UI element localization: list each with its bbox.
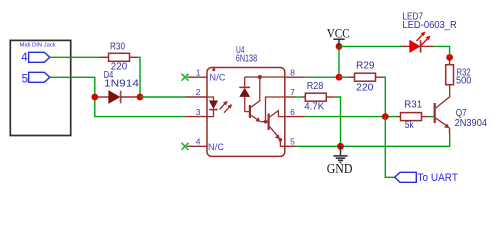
node R32/LED junction dot xyxy=(446,54,453,61)
pin 5 stub and label xyxy=(285,137,296,147)
svg-text:5: 5 xyxy=(290,137,295,147)
wire pin 8 to VCC node xyxy=(305,76,339,78)
pin 7 stub and label xyxy=(285,87,296,97)
ground GND symbol xyxy=(327,146,353,176)
svg-text:4: 4 xyxy=(21,52,28,64)
svg-text:R31: R31 xyxy=(404,100,422,111)
svg-text:R28: R28 xyxy=(307,81,324,92)
svg-text:To UART: To UART xyxy=(418,172,459,184)
wire pin4 to R30 xyxy=(50,56,101,58)
svg-text:4.7K: 4.7K xyxy=(304,102,324,113)
LED7 light arrows xyxy=(417,32,431,46)
wire R31 to Q7 base xyxy=(429,116,434,118)
pin 4 stub and label xyxy=(187,137,207,147)
svg-text:220: 220 xyxy=(356,83,374,94)
svg-text:R29: R29 xyxy=(356,61,375,72)
resistor R28 xyxy=(296,81,335,113)
LED LED7 xyxy=(401,12,457,53)
pin 8 stub and label xyxy=(285,67,305,77)
svg-text:500: 500 xyxy=(456,76,472,87)
pin 5 flag (DIN jack) xyxy=(22,72,50,85)
To UART flag xyxy=(395,172,459,184)
svg-text:8: 8 xyxy=(290,67,295,77)
wire VCC to LED7 xyxy=(339,45,401,47)
svg-text:R30: R30 xyxy=(110,42,125,53)
node pin6/R29/UART junction dot xyxy=(382,113,389,120)
resistor R32 xyxy=(446,57,472,86)
pin 6 stub and label xyxy=(285,107,305,117)
U4 internal top rail to pin 8 xyxy=(245,75,285,79)
svg-text:1: 1 xyxy=(196,67,201,77)
svg-text:2: 2 xyxy=(196,87,201,97)
svg-text:Midi DIN Jack: Midi DIN Jack xyxy=(20,43,56,49)
node junction dot left of D4 xyxy=(91,94,98,101)
wire D4 to U4 pin 2 xyxy=(140,96,186,98)
svg-text:4: 4 xyxy=(196,137,201,147)
svg-text:5: 5 xyxy=(22,73,28,85)
svg-text:3: 3 xyxy=(196,107,201,117)
svg-text:6: 6 xyxy=(290,107,295,117)
svg-text:220: 220 xyxy=(111,62,128,73)
node ground junction dot xyxy=(337,143,344,150)
svg-text:N/C: N/C xyxy=(208,142,224,152)
transistor Q7 xyxy=(435,85,488,134)
resistor R31 xyxy=(397,100,429,131)
pin 4 flag (DIN jack) xyxy=(21,52,50,64)
svg-text:1N914: 1N914 xyxy=(104,78,140,89)
svg-text:7: 7 xyxy=(290,87,295,97)
diode D4 1N914 xyxy=(95,70,140,103)
wire R30 down to pin2 net xyxy=(137,57,140,97)
node pin8/R29 junction dot xyxy=(336,74,343,81)
N/C marker X at pin 4 xyxy=(182,142,225,152)
op-amp U4 box outline xyxy=(207,45,285,156)
svg-text:6N138: 6N138 xyxy=(236,54,258,65)
wire R28 down to ground rail xyxy=(335,97,340,146)
Midi DIN Jack box xyxy=(10,40,70,135)
pin 1 orientation dot xyxy=(212,68,215,71)
U4 internal transistor Q-B xyxy=(269,111,285,147)
pin 3 stub and label xyxy=(186,107,208,117)
svg-text:2N3904: 2N3904 xyxy=(455,118,488,129)
N/C marker X at pin 1 xyxy=(182,72,226,82)
svg-text:5k: 5k xyxy=(405,120,415,131)
wire ground rail pin5 to Q7 emitter xyxy=(296,134,450,147)
wire R29 down to pin6 net xyxy=(383,77,385,116)
resistor R29 xyxy=(339,61,383,94)
pin 2 stub and label xyxy=(186,87,208,97)
svg-text:N/C: N/C xyxy=(210,72,226,82)
pin 1 stub and label xyxy=(187,67,207,77)
wire LED7 to R32 xyxy=(434,46,449,57)
resistor R30 xyxy=(100,42,138,73)
svg-text:GND: GND xyxy=(327,161,353,176)
U4 internal transistor Q-A xyxy=(250,77,268,122)
U4 internal base line from pin 7 xyxy=(264,97,285,123)
wire VCC trunk xyxy=(338,46,340,77)
svg-text:VCC: VCC xyxy=(327,26,350,41)
svg-text:LED-0603_R: LED-0603_R xyxy=(402,20,456,31)
U4 internal light arrows xyxy=(220,101,233,113)
U4 internal photodiode xyxy=(239,77,250,112)
node VCC junction dot xyxy=(336,43,343,50)
wire UART drop xyxy=(385,117,394,178)
wire pin6 to R31 xyxy=(305,116,397,118)
node junction dot right of D4 xyxy=(137,94,144,101)
wire pin5 down-around to pin3 xyxy=(50,77,186,116)
power VCC symbol xyxy=(327,26,350,47)
U4 internal emitter LED xyxy=(207,97,218,117)
